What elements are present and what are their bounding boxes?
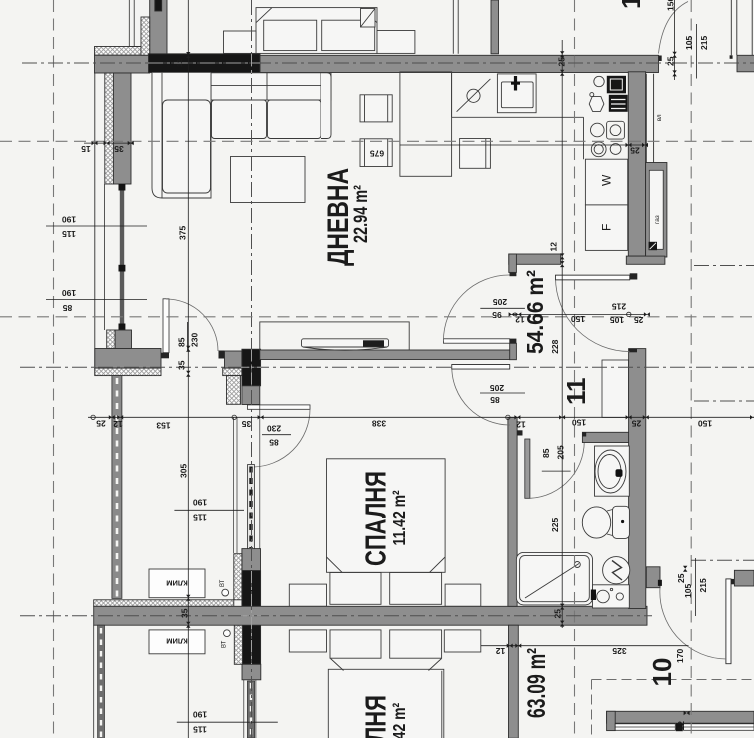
dim node diamonds	[92, 51, 754, 715]
hatch column left of black upper	[234, 554, 242, 600]
water tap circle upper	[222, 589, 229, 596]
sofa chaise body	[152, 73, 211, 198]
door living-room jamb	[161, 353, 169, 359]
wall stub above top-left gray	[150, 0, 167, 55]
door apt10 swing arc	[660, 588, 727, 659]
wall SW corner hatch	[95, 368, 161, 376]
jamb bath door black	[517, 430, 522, 435]
door kitchen swing arc	[556, 278, 630, 352]
kitchen cabinet block	[400, 72, 452, 176]
svg-text:190: 190	[193, 498, 207, 508]
column black living/bedroom	[242, 349, 261, 386]
door kitchen leaf	[556, 275, 630, 280]
svg-text:КЛИМ: КЛИМ	[166, 637, 187, 646]
neighbour-top wardrobe corner	[361, 9, 376, 28]
door apt10 jamb	[731, 579, 735, 584]
svg-text:105: 105	[683, 584, 693, 598]
grid dashed horizontal 1	[0, 140, 754, 142]
dim line window 190-115	[46, 225, 147, 227]
svg-text:150: 150	[572, 418, 586, 428]
wall south mid hatch	[223, 368, 242, 376]
wall hall west piece between doors	[510, 343, 517, 359]
grid dash-dot vertical B	[251, 0, 253, 738]
grid dashed vertical D	[690, 0, 692, 738]
wall kitchen corner leg	[509, 254, 517, 272]
svg-text:25: 25	[96, 419, 106, 429]
svg-text:205: 205	[493, 297, 507, 307]
stove black module	[607, 76, 626, 94]
washer W	[585, 159, 627, 205]
wall hall west	[508, 417, 517, 606]
dim separator 230-85 bedroom door	[262, 434, 291, 436]
kitchen stool	[460, 139, 491, 169]
neighbour-top wall lines	[453, 0, 458, 54]
dim line kitchen 25	[400, 144, 645, 146]
jamb line right of bedroom door	[259, 405, 261, 549]
wall top-left exterior gray	[95, 55, 150, 73]
door hall-living leaf	[443, 339, 509, 343]
svg-text:85: 85	[269, 438, 279, 448]
door kitchen leaf overdraw	[556, 275, 630, 280]
wall kitchen bottom	[509, 254, 561, 264]
svg-text:115: 115	[193, 513, 207, 523]
svg-text:190: 190	[62, 215, 76, 225]
jamb top wall end	[659, 56, 662, 62]
svg-text:150: 150	[666, 0, 676, 11]
sofa back dividers	[162, 73, 321, 100]
wall lines above top-right	[731, 0, 752, 55]
svg-text:W: W	[600, 174, 614, 186]
sofa back	[152, 73, 331, 100]
neighbour-top bed	[256, 8, 377, 54]
dim line vertical 375-305	[187, 0, 189, 738]
door top (neighbour) swing arc	[659, 2, 689, 54]
jamb above hall piece	[510, 339, 517, 344]
jamb kitchen door south black	[629, 349, 637, 353]
coffee table	[231, 157, 306, 203]
AC unit lower	[149, 630, 205, 654]
wall lines right of kitchen east	[646, 74, 653, 163]
wall left upper hatch	[105, 73, 114, 184]
AC unit upper	[149, 569, 205, 598]
window left mullion blocks	[119, 184, 126, 191]
wall left upper gray	[113, 73, 131, 184]
dim separator 105-215 top-right	[696, 24, 698, 79]
svg-text:12: 12	[496, 646, 506, 656]
hob frame	[607, 121, 625, 139]
toilet tank	[613, 506, 630, 538]
wall stub hatch	[141, 17, 150, 55]
svg-text:85: 85	[490, 395, 500, 405]
svg-text:11.42 m²: 11.42 m²	[391, 703, 410, 738]
grid dashed horizontal 2	[0, 316, 754, 318]
jamb bath top wall left	[582, 432, 586, 436]
wall left outer face line	[94, 73, 96, 376]
svg-text:25: 25	[634, 315, 644, 325]
svg-text:12: 12	[177, 59, 184, 67]
apt10 nightstand right	[444, 630, 481, 652]
svg-text:12: 12	[616, 0, 646, 9]
freezer F	[585, 205, 627, 251]
door hall-bedroom leaf	[452, 365, 510, 369]
dim line window 190-85	[46, 299, 147, 301]
kitchen sink	[497, 74, 536, 113]
svg-text:25: 25	[630, 145, 640, 155]
axis overlay on black column2	[241, 615, 261, 617]
svg-text:150: 150	[571, 314, 585, 324]
axis dash-dot right partial 2	[694, 400, 754, 402]
wall gray below column	[242, 386, 260, 405]
dim separator 205-85	[480, 392, 525, 394]
wall bedroom top	[260, 350, 510, 360]
wall bottom-right band	[607, 711, 754, 723]
wall south mid gray	[225, 351, 242, 368]
bath sink bowl	[595, 450, 626, 493]
svg-text:12: 12	[113, 419, 123, 429]
wall kitchen east	[628, 72, 645, 256]
bath sink counter	[595, 446, 630, 496]
neighbour-top wall bar gray	[491, 0, 499, 54]
axis dash-dot band	[20, 615, 652, 617]
svg-text:ВТ: ВТ	[222, 640, 228, 648]
svg-text:12: 12	[516, 420, 526, 430]
partition bar below bedroom door	[248, 465, 255, 550]
kitchen faucet	[514, 76, 517, 91]
svg-text:КЛИМ: КЛИМ	[166, 579, 187, 588]
svg-text:63.09 m²: 63.09 m²	[522, 648, 551, 718]
svg-text:25: 25	[632, 419, 642, 429]
stove grill black	[609, 95, 628, 112]
armchair square 2	[360, 139, 392, 167]
svg-text:газ: газ	[654, 215, 661, 224]
band hatch strip	[94, 600, 234, 607]
sofa chaise cushion	[163, 100, 211, 193]
svg-text:ВТ: ВТ	[220, 579, 226, 587]
wall apt10 hall west	[509, 625, 519, 738]
toilet bowl	[582, 507, 610, 538]
nightstand right	[445, 584, 481, 606]
door living-room leaf	[163, 299, 169, 353]
boiler	[603, 557, 630, 584]
svg-text:228: 228	[550, 339, 560, 353]
svg-text:85: 85	[177, 337, 187, 347]
svg-text:35: 35	[242, 419, 252, 429]
wall apt10 left bar	[98, 625, 105, 738]
svg-text:375: 375	[178, 226, 188, 240]
axis overlay on black column1	[241, 366, 261, 368]
kitchen worktop symbol circle	[467, 89, 480, 102]
svg-text:170: 170	[675, 649, 685, 663]
svg-text:225: 225	[550, 518, 560, 532]
wall right piece apt10 entry	[734, 570, 754, 586]
TV cabinet	[260, 322, 409, 350]
thin wall lines bedroom west upper	[234, 418, 237, 554]
duct shaft hall	[602, 360, 629, 417]
svg-text:35: 35	[114, 144, 124, 154]
wall bathroom top	[582, 432, 629, 442]
thin wall below bedroom	[244, 680, 256, 738]
svg-text:205: 205	[490, 383, 504, 393]
svg-text:215: 215	[698, 578, 708, 592]
door hall-bedroom leaf overdraw	[452, 365, 510, 369]
svg-text:115: 115	[62, 229, 76, 239]
svg-text:25: 25	[553, 609, 563, 619]
sofa right arm	[321, 73, 331, 139]
axis dashed apt10 corner	[592, 680, 754, 738]
door hall-bedroom swing arc	[452, 367, 510, 425]
sofa back midline	[162, 84, 321, 86]
gas shaft frame	[646, 163, 667, 258]
wall left lower gray	[115, 330, 131, 349]
door kitchen jamb	[630, 273, 638, 279]
wall band under shaft	[626, 256, 665, 264]
wall east bathroom	[629, 349, 646, 609]
wall top gray band	[260, 55, 659, 72]
sofa chaise arm line	[161, 73, 163, 198]
wall gray above black column2	[242, 549, 261, 571]
door bathroom leaf	[525, 439, 530, 498]
svg-text:215: 215	[699, 36, 709, 50]
wall left lower hatch	[107, 330, 115, 349]
bed pillows	[330, 573, 381, 605]
svg-text:95: 95	[492, 310, 502, 320]
dim line apt10 window 190-115	[177, 721, 278, 723]
column black bedroom west	[242, 571, 261, 665]
jamb top-right	[730, 55, 733, 59]
dim line vertical kitchen-hall	[561, 40, 563, 628]
door bathroom swing arc	[530, 436, 584, 498]
svg-text:105: 105	[610, 315, 624, 325]
black fitting at bump	[658, 580, 662, 586]
jamb below kitchen corner	[510, 272, 517, 276]
wall lines above left corner	[129, 0, 141, 47]
neighbour-top nightstand left	[224, 31, 257, 53]
wall south mid jamb black	[219, 351, 225, 359]
hatch column left of black lower	[234, 625, 242, 664]
svg-text:12: 12	[549, 242, 559, 252]
nightstand left	[289, 584, 326, 606]
svg-text:35: 35	[180, 608, 190, 618]
svg-text:305: 305	[179, 464, 189, 478]
bath sink faucet	[616, 469, 623, 477]
stove pot symbol	[589, 97, 604, 112]
water tap circle lower	[224, 630, 231, 637]
apt10 nightstand left	[289, 630, 326, 652]
svg-text:22.94 m²: 22.94 m²	[349, 185, 372, 243]
svg-text:25: 25	[557, 57, 567, 67]
svg-text:11: 11	[561, 378, 591, 406]
window left glass bar	[120, 184, 124, 330]
wall top-left exterior hatch	[95, 47, 150, 56]
svg-text:F: F	[600, 224, 614, 231]
svg-text:СПАЛНЯ: СПАЛНЯ	[361, 471, 392, 566]
svg-text:85: 85	[541, 448, 551, 458]
window bottom-right 2	[684, 724, 754, 731]
axis dash-dot top wall	[22, 62, 754, 64]
door bedroom swing arc	[252, 409, 310, 467]
sofa seat cushion 1	[212, 100, 267, 139]
window left frame line	[104, 184, 106, 330]
TV set	[302, 339, 389, 347]
TV base curve	[303, 347, 387, 350]
door hall-living swing arc	[443, 275, 509, 341]
kitchen counter front line	[452, 72, 584, 159]
grid dashed vertical A	[53, 0, 55, 738]
svg-text:215: 215	[612, 301, 626, 311]
window bottom-right 1	[615, 724, 675, 731]
svg-text:вл: вл	[657, 114, 663, 121]
shower tray	[516, 552, 592, 605]
svg-text:54.66 m²: 54.66 m²	[522, 270, 548, 354]
svg-text:85: 85	[63, 303, 73, 313]
wall gray below black column2	[242, 664, 261, 680]
thin partition living south	[112, 376, 122, 599]
axis dash-dot apt10 entry	[691, 559, 754, 561]
neighbour-top pillows	[264, 20, 317, 50]
svg-text:150: 150	[698, 419, 712, 429]
wall top-right piece	[737, 55, 754, 72]
svg-text:35: 35	[177, 360, 187, 370]
armchair square 1	[360, 95, 392, 122]
svg-text:338: 338	[372, 419, 386, 429]
stove burner circle	[594, 76, 604, 86]
wall bottom-right step	[607, 711, 616, 730]
axis dash-dot right partial 1	[694, 265, 754, 267]
svg-text:10: 10	[647, 658, 677, 687]
svg-text:190: 190	[193, 710, 207, 720]
svg-text:12: 12	[515, 314, 525, 324]
wall black band top (load-bearing)	[149, 54, 261, 73]
svg-text:11.42 m²: 11.42 m²	[391, 490, 410, 545]
dim separator 105-215 apt10	[694, 558, 696, 616]
svg-text:190: 190	[62, 288, 76, 298]
dim separator 85-205 bath door	[542, 470, 571, 472]
svg-text:105: 105	[684, 36, 694, 50]
axis dash-dot main	[20, 366, 754, 368]
apt10 bed pillows	[330, 630, 381, 658]
svg-text:153: 153	[156, 421, 170, 431]
wall SW corner gray	[95, 349, 161, 369]
door bedroom leaf open	[247, 405, 310, 409]
dim node circles	[91, 415, 95, 419]
svg-text:675: 675	[370, 149, 384, 159]
hob burners	[591, 123, 605, 137]
dim line apt10 325	[481, 645, 689, 647]
svg-text:205: 205	[556, 445, 566, 459]
dim separator 205-95	[480, 307, 525, 309]
corner washbasin unit	[593, 585, 630, 608]
bed bedroom	[327, 459, 446, 573]
wall south mid hatch leg	[227, 376, 241, 405]
grid dashed vertical C	[574, 0, 576, 738]
band main gray	[94, 606, 647, 625]
svg-text:25: 25	[676, 573, 686, 583]
svg-text:15: 15	[81, 144, 91, 154]
dim line vertical top-right 25	[674, 0, 676, 80]
svg-text:25: 25	[666, 56, 676, 66]
door apt10 leaf	[726, 579, 731, 664]
kitchen worktop symbol diagonal	[457, 79, 491, 112]
sofa seat cushion 2	[268, 100, 322, 139]
dim line hall horizontal	[511, 313, 647, 315]
axis overlay on black band	[148, 62, 260, 64]
door living-room swing arc	[166, 299, 218, 351]
svg-text:325: 325	[612, 646, 626, 656]
gas shaft inner	[649, 170, 663, 249]
gas meter black square	[649, 242, 657, 250]
wall bump apt10 entry	[646, 567, 660, 588]
svg-text:12: 12	[676, 721, 686, 731]
wall apt10 left face line	[93, 625, 95, 738]
dim line wall 15-35	[84, 142, 134, 144]
apt10 bed	[328, 669, 444, 738]
neighbour-top nightstand right	[377, 31, 415, 54]
dim line main horizontal chain	[88, 416, 754, 418]
window pillar black	[676, 723, 683, 731]
dim separator 85-230 living door	[187, 322, 189, 350]
svg-text:230: 230	[267, 424, 281, 434]
column cap black top edge	[155, 0, 162, 11]
svg-text:115: 115	[193, 725, 207, 735]
axis overlay vertical through black	[251, 54, 253, 664]
svg-text:СПАЛНЯ: СПАЛНЯ	[361, 695, 392, 738]
svg-text:230: 230	[190, 333, 200, 347]
dim line bedroom window 190-115	[174, 509, 244, 511]
